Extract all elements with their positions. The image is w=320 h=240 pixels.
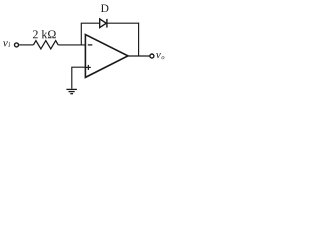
op-amp U1: [85, 35, 128, 78]
label v_o: [156, 53, 164, 59]
wire op-amp output to terminal: [128, 55, 150, 57]
wire feedback left vertical (node A junction to top rail): [80, 23, 82, 45]
resistor R1 2 kOhm: [33, 41, 58, 49]
diode label D: [101, 4, 109, 12]
wire feedback top left segment: [81, 22, 100, 24]
wire feedback top right segment: [108, 22, 140, 24]
wire input terminal to resistor: [19, 44, 34, 46]
op-amp inverting input minus sign: [88, 44, 93, 46]
op-amp non-inverting input plus sign: [86, 65, 91, 70]
wire resistor to op-amp inverting input: [58, 44, 85, 46]
node vi input terminal: [15, 43, 19, 47]
wire feedback right vertical down to output: [138, 23, 140, 56]
node vo output terminal: [150, 54, 154, 58]
resistor value label 2 kOhm: [33, 30, 56, 38]
diode D: [100, 19, 107, 28]
wire non-inverting input to ground stem: [72, 67, 86, 89]
ground: [66, 89, 77, 93]
label v_i: [3, 41, 10, 47]
